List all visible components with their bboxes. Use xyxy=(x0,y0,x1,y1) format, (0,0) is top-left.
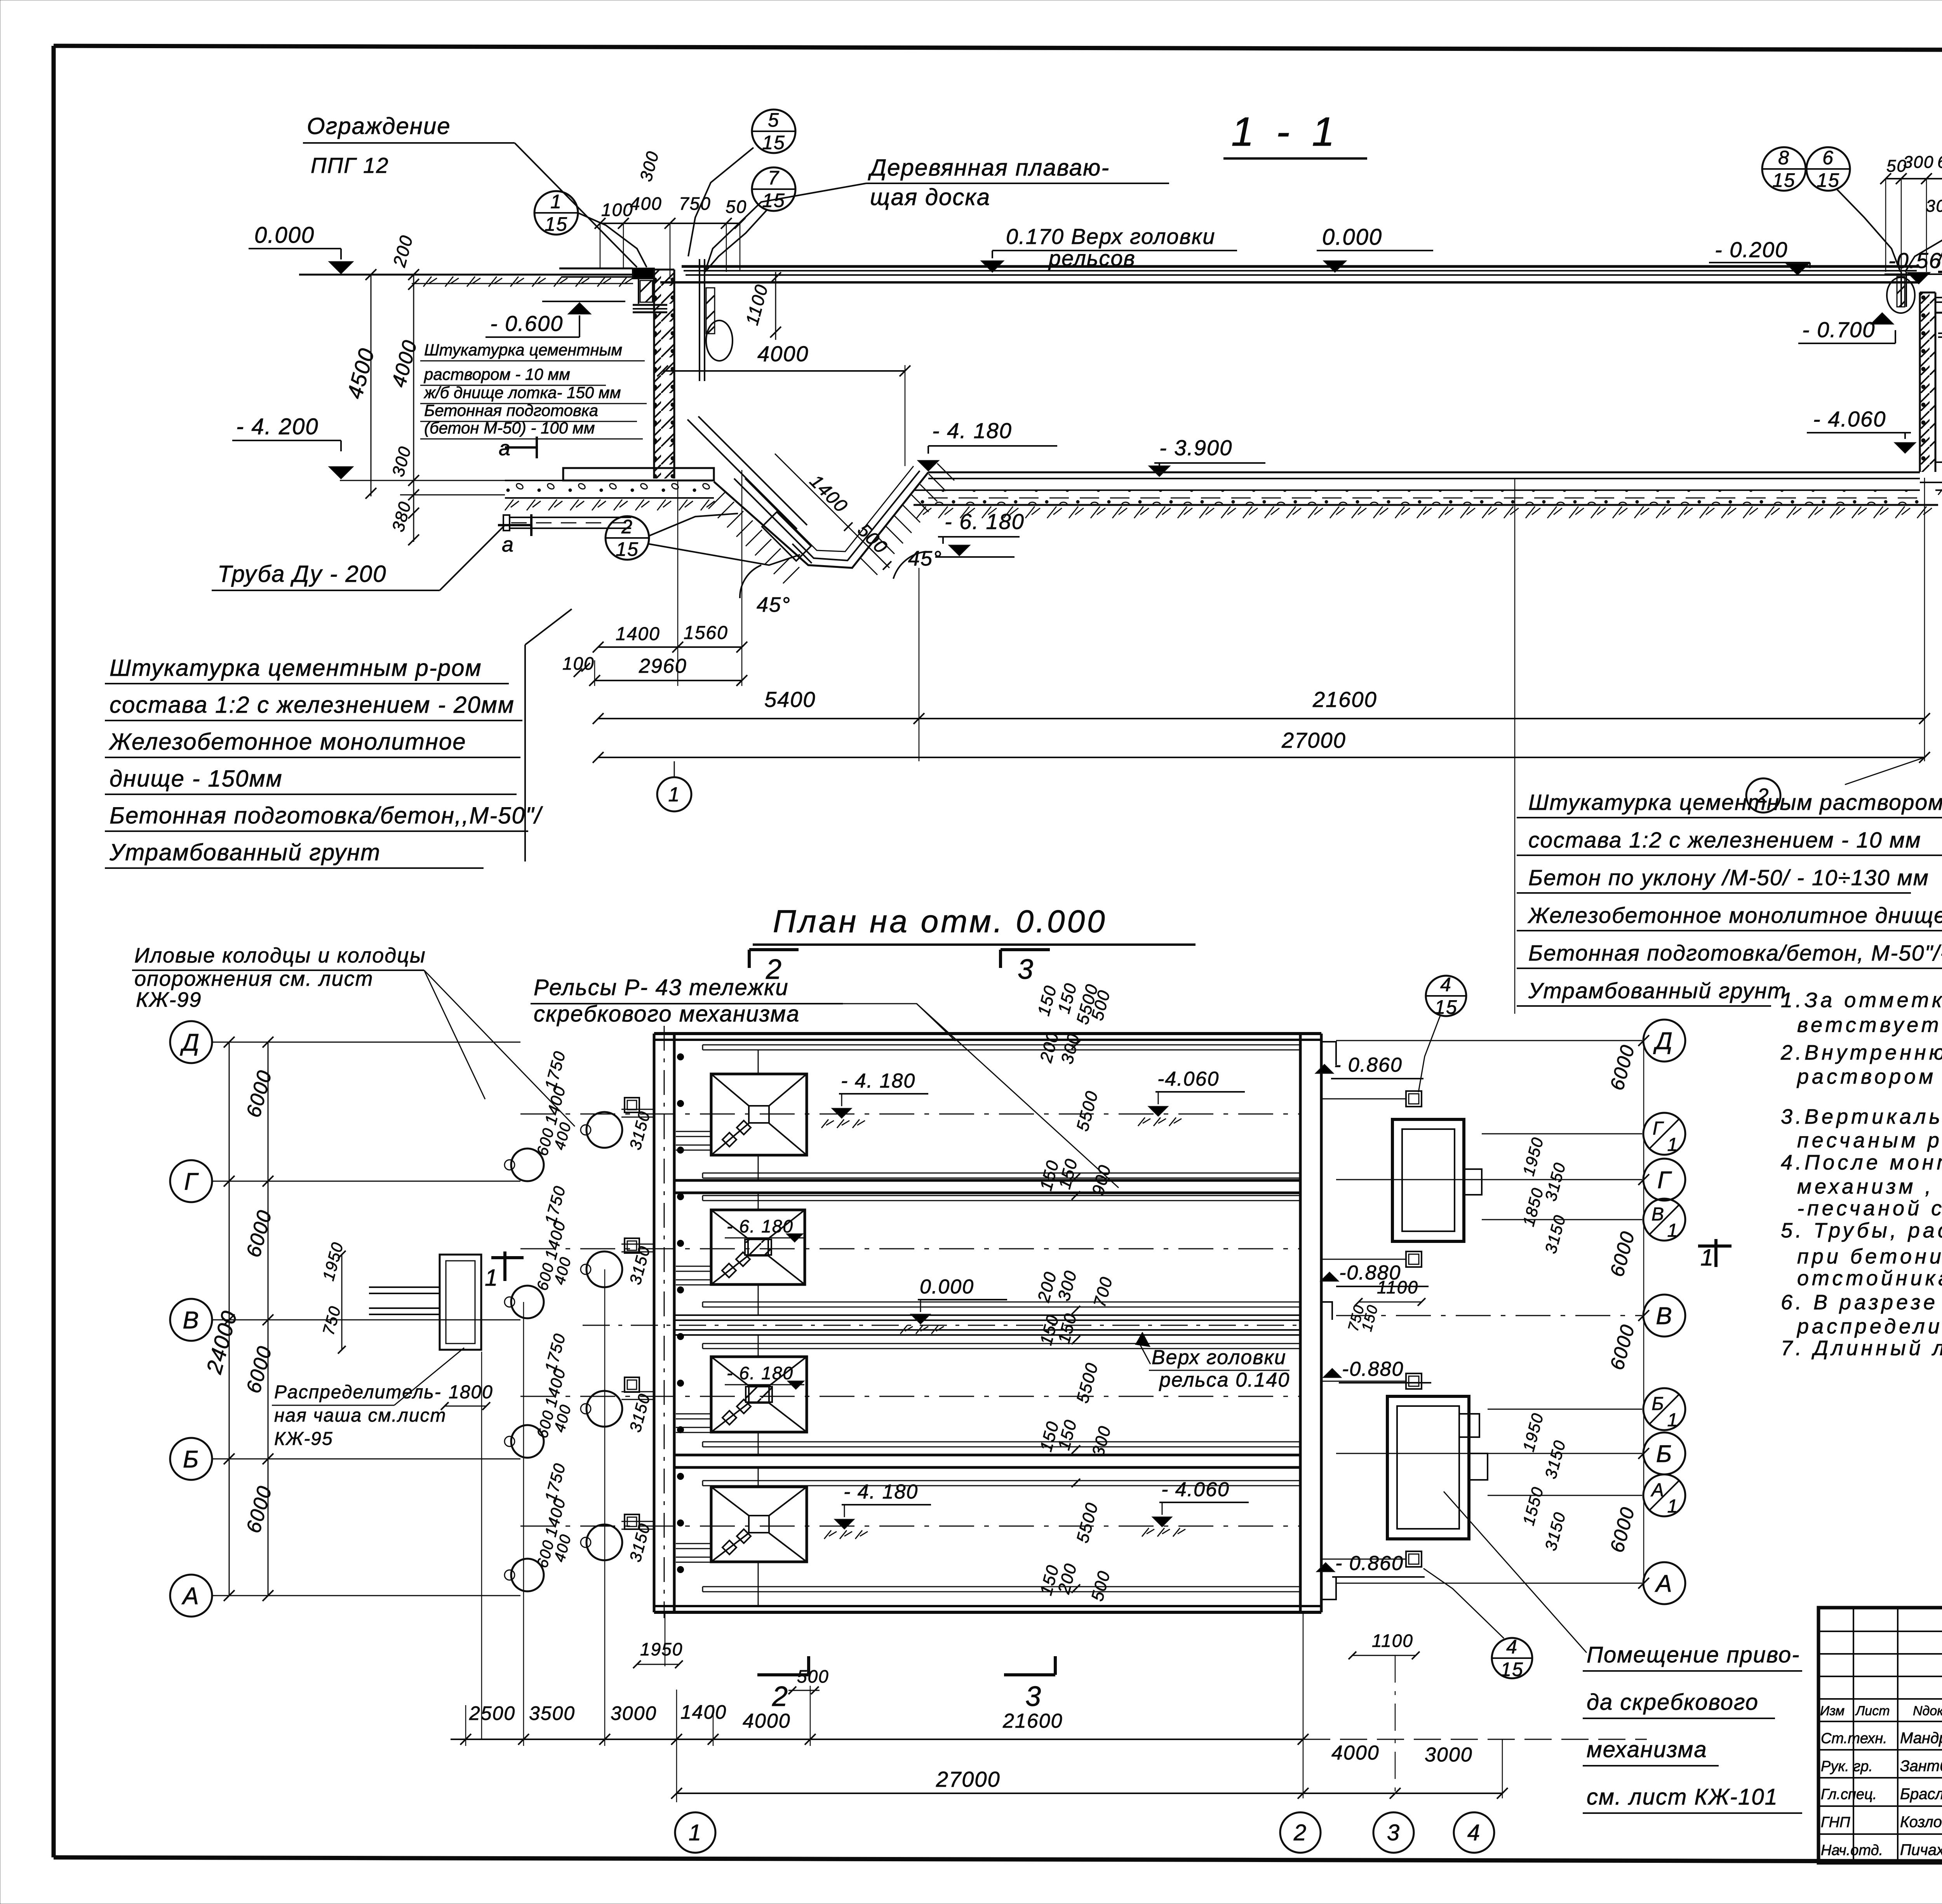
svg-text:см. лист КЖ-101: см. лист КЖ-101 xyxy=(1587,1784,1778,1810)
svg-text:скребкового механизма: скребкового механизма xyxy=(534,1001,800,1027)
svg-text:Мандрыка: Мандрыка xyxy=(1900,1730,1942,1747)
svg-text:-песчаной стяжки толщ: -песчаной стяжки толщиной 20 мм xyxy=(1797,1197,1942,1220)
svg-text:1400: 1400 xyxy=(616,624,660,644)
svg-text:Штукатурка цементным раст: Штукатурка цементным раствором xyxy=(1528,790,1942,815)
svg-text:1 - 1: 1 - 1 xyxy=(1231,109,1340,155)
svg-text:4000: 4000 xyxy=(757,341,809,366)
svg-text:3000: 3000 xyxy=(611,1702,657,1724)
svg-text:Труба Ду - 200: Труба Ду - 200 xyxy=(218,561,387,587)
svg-text:600: 600 xyxy=(1937,153,1942,172)
svg-text:Д: Д xyxy=(180,1029,200,1056)
svg-text:4000: 4000 xyxy=(743,1710,791,1732)
svg-text:Помещение приво-: Помещение приво- xyxy=(1587,1642,1800,1667)
svg-text:днище: днище - 150мм xyxy=(110,766,283,792)
svg-text:Деревянная плаваю-: Деревянная плаваю- xyxy=(868,155,1110,181)
svg-text:15: 15 xyxy=(1500,1659,1524,1680)
svg-text:15: 15 xyxy=(1434,996,1458,1018)
svg-text:раствором состава 1:2 тол: раствором состава 1:2 толщиной 20 мм с ж… xyxy=(1796,1065,1942,1088)
svg-text:300: 300 xyxy=(1903,153,1934,172)
svg-text:1.За отметку 0.000 принят: 1.За отметку 0.000 принят верх борта отс… xyxy=(1781,989,1942,1012)
svg-text:Ограждение: Ограждение xyxy=(307,113,451,139)
svg-text:0.000: 0.000 xyxy=(254,223,315,248)
svg-text:Пичахчи: Пичахчи xyxy=(1900,1841,1942,1859)
svg-text:Б: Б xyxy=(1651,1394,1664,1414)
svg-text:4.После монтажа и рихтов: 4.После монтажа и рихтовки рельс под скр… xyxy=(1781,1151,1942,1174)
svg-text:В: В xyxy=(183,1307,199,1334)
svg-text:-0.880: -0.880 xyxy=(1342,1358,1404,1380)
svg-text:Бетонная подготовка/бетон,,М-: Бетонная подготовка/бетон,,М-50"/ xyxy=(110,802,543,828)
svg-text:15: 15 xyxy=(1772,169,1796,191)
svg-text:Б: Б xyxy=(1656,1441,1672,1467)
svg-text:- 0.860: - 0.860 xyxy=(1335,1552,1404,1575)
svg-text:1: 1 xyxy=(1667,1220,1679,1241)
svg-text:А: А xyxy=(1650,1480,1665,1500)
svg-text:Д: Д xyxy=(1653,1028,1673,1055)
svg-text:План на отм. 0.000: План на отм. 0.000 xyxy=(773,904,1107,939)
svg-text:15: 15 xyxy=(616,538,639,560)
svg-text:3: 3 xyxy=(1387,1820,1400,1845)
svg-text:В: В xyxy=(1656,1303,1672,1330)
svg-text:100: 100 xyxy=(601,200,633,220)
svg-text:да скребкового: да скребкового xyxy=(1587,1690,1759,1715)
svg-text:15: 15 xyxy=(545,213,568,235)
svg-text:1800: 1800 xyxy=(449,1382,493,1403)
svg-text:ППГ 12: ППГ 12 xyxy=(311,153,389,178)
svg-text:750: 750 xyxy=(679,193,711,214)
svg-text:3000: 3000 xyxy=(1425,1744,1473,1766)
svg-text:Козловская: Козловская xyxy=(1900,1813,1942,1831)
svg-text:А: А xyxy=(1654,1570,1672,1597)
svg-text:Штукатурка цементным р-ром: Штукатурка цементным р-ром xyxy=(110,655,482,681)
svg-text:а: а xyxy=(499,437,511,460)
svg-text:27000: 27000 xyxy=(1281,728,1346,752)
svg-text:Штукатурка цементным: Штукатурка цементным xyxy=(424,341,622,359)
svg-text:21600: 21600 xyxy=(1002,1710,1063,1732)
svg-text:Г: Г xyxy=(184,1168,199,1195)
svg-text:механизм , по мостикам: механизм , по мостикам выполняется пол и… xyxy=(1797,1175,1942,1198)
svg-text:Бетон по уклону /М-50/ -: Бетон по уклону /М-50/ - 10÷130 мм xyxy=(1528,865,1929,890)
svg-text:3: 3 xyxy=(1018,954,1034,985)
svg-text:3500: 3500 xyxy=(529,1702,575,1724)
svg-text:3.Вертикальные поверхности: 3.Вертикальные поверхности лотков затира… xyxy=(1781,1105,1942,1128)
svg-text:1: 1 xyxy=(1667,1135,1679,1155)
svg-text:15: 15 xyxy=(1817,169,1840,191)
svg-text:0.170 Верх головки: 0.170 Верх головки xyxy=(1006,224,1215,249)
svg-text:Изм: Изм xyxy=(1820,1704,1845,1718)
svg-text:Утрамбованный грунт: Утрамбованный грунт xyxy=(109,839,381,865)
svg-text:- 0.200: - 0.200 xyxy=(1715,237,1788,262)
svg-text:Гл.спец.: Гл.спец. xyxy=(1821,1786,1877,1803)
svg-text:1: 1 xyxy=(1667,1496,1679,1517)
svg-text:5400: 5400 xyxy=(764,687,816,712)
svg-text:рельсов: рельсов xyxy=(1048,246,1136,270)
svg-text:(бетон М-50) - 100 мм: (бетон М-50) - 100 мм xyxy=(424,419,595,437)
svg-text:1: 1 xyxy=(485,1265,498,1291)
svg-text:- 0.700: - 0.700 xyxy=(1802,317,1875,342)
svg-text:- 3.900: - 3.900 xyxy=(1159,435,1232,460)
svg-text:400: 400 xyxy=(630,193,662,214)
svg-text:В: В xyxy=(1651,1204,1665,1225)
svg-text:2500: 2500 xyxy=(469,1702,515,1724)
svg-text:1: 1 xyxy=(689,1820,702,1845)
svg-text:ветствует абсолютной отметк: ветствует абсолютной отметке xyxy=(1797,1013,1942,1037)
svg-text:распределительная чаша: распределительная чаша xyxy=(1796,1315,1942,1338)
svg-text:состава 1:2 с железнением - 20: состава 1:2 с железнением - 20мм xyxy=(110,692,515,718)
svg-text:1: 1 xyxy=(1700,1244,1714,1270)
svg-text:КЖ-99: КЖ-99 xyxy=(136,988,202,1011)
svg-text:Ст.техн.: Ст.техн. xyxy=(1821,1730,1887,1747)
svg-text:5. Трубы, расположенные под: 5. Трубы, расположенные под днищем отсто… xyxy=(1781,1219,1942,1242)
svg-text:- 4. 180: - 4. 180 xyxy=(844,1481,918,1503)
svg-text:КЖ-95: КЖ-95 xyxy=(274,1429,333,1449)
svg-text:27000: 27000 xyxy=(936,1767,1001,1791)
svg-text:песчаным раствором .: песчаным раствором . xyxy=(1797,1129,1942,1152)
svg-text:1100: 1100 xyxy=(1372,1631,1413,1651)
svg-text:- 4.060: - 4.060 xyxy=(1161,1478,1230,1501)
svg-text:2: 2 xyxy=(621,516,633,538)
svg-text:Nдокумента: Nдокумента xyxy=(1913,1704,1942,1718)
svg-text:2960: 2960 xyxy=(639,655,687,677)
svg-text:раствором - 10 мм: раствором - 10 мм xyxy=(423,365,570,383)
svg-text:7: 7 xyxy=(768,167,780,189)
svg-text:1400: 1400 xyxy=(680,1701,727,1723)
svg-text:щая доска: щая доска xyxy=(870,184,990,210)
svg-text:3: 3 xyxy=(1025,1681,1042,1712)
svg-text:Распределитель-: Распределитель- xyxy=(274,1382,442,1403)
svg-text:Иловые колодцы и колодцы: Иловые колодцы и колодцы xyxy=(134,944,426,967)
svg-text:21600: 21600 xyxy=(1312,687,1377,712)
svg-text:Б: Б xyxy=(183,1446,199,1473)
svg-text:5: 5 xyxy=(768,109,780,131)
svg-text:опорожнения см. лист: опорожнения см. лист xyxy=(134,967,374,990)
svg-text:- 0.600: - 0.600 xyxy=(490,311,563,336)
svg-text:механизма: механизма xyxy=(1587,1737,1707,1762)
svg-text:1: 1 xyxy=(550,191,562,212)
svg-text:1: 1 xyxy=(1667,1410,1679,1431)
svg-text:2: 2 xyxy=(772,1681,788,1712)
svg-text:6: 6 xyxy=(1822,147,1834,169)
svg-text:- 4. 180: - 4. 180 xyxy=(932,418,1012,443)
svg-text:0.000: 0.000 xyxy=(920,1276,974,1298)
svg-text:2.Внутреннюю к воде поверхно: 2.Внутреннюю к воде поверхность стен ошт… xyxy=(1780,1041,1942,1064)
svg-text:- 0.860: - 0.860 xyxy=(1334,1054,1403,1076)
svg-text:1: 1 xyxy=(668,783,680,806)
svg-text:Зантберг: Зантберг xyxy=(1900,1758,1942,1775)
svg-text:Рук. гр.: Рук. гр. xyxy=(1821,1758,1873,1775)
svg-text:2: 2 xyxy=(1293,1820,1307,1845)
svg-text:1100: 1100 xyxy=(1377,1277,1418,1297)
svg-text:отстойника .: отстойника . xyxy=(1797,1267,1942,1290)
svg-text:8: 8 xyxy=(1778,147,1790,169)
svg-text:7. Длинный лист комплект: 7. Длинный лист комплектен с листами КЖ-… xyxy=(1781,1337,1942,1360)
svg-text:- 6. 180: - 6. 180 xyxy=(727,1216,794,1236)
svg-text:1560: 1560 xyxy=(684,623,728,643)
svg-text:0.000: 0.000 xyxy=(1322,225,1382,250)
svg-text:6. В разрезе 1-1 условно: 6. В разрезе 1-1 условно не показаны кол… xyxy=(1781,1291,1942,1314)
svg-text:Железобетонное монолитное: Железобетонное монолитное xyxy=(108,729,466,755)
svg-text:ная чаша см.лист: ная чаша см.лист xyxy=(274,1405,447,1426)
svg-text:300: 300 xyxy=(1926,197,1942,216)
svg-text:45°: 45° xyxy=(757,593,791,616)
svg-text:1950: 1950 xyxy=(640,1639,683,1659)
svg-text:Бетонная подготовка/бетон, М-: Бетонная подготовка/бетон, М-50"/-100мм xyxy=(1528,941,1942,966)
svg-text:Нач.отд.: Нач.отд. xyxy=(1821,1842,1883,1859)
svg-text:4: 4 xyxy=(1467,1820,1481,1845)
svg-text:рельса 0.140: рельса 0.140 xyxy=(1159,1369,1290,1391)
svg-text:Г: Г xyxy=(1653,1118,1664,1139)
svg-text:А: А xyxy=(181,1583,199,1610)
svg-text:4000: 4000 xyxy=(1331,1742,1380,1764)
svg-text:ж/б днище лотка- 150 мм: ж/б днище лотка- 150 мм xyxy=(423,383,621,402)
svg-text:- 6. 180: - 6. 180 xyxy=(727,1363,794,1383)
svg-text:Лист: Лист xyxy=(1855,1704,1890,1718)
svg-text:-0.560: -0.560 xyxy=(1888,248,1942,273)
svg-text:а: а xyxy=(502,533,514,556)
svg-text:Брасловский: Брасловский xyxy=(1900,1786,1942,1803)
svg-text:- 4. 180: - 4. 180 xyxy=(841,1070,915,1092)
svg-text:15: 15 xyxy=(762,132,785,153)
svg-text:Железобетонное монолитное дн: Железобетонное монолитное днище-150мм xyxy=(1527,903,1942,928)
svg-text:4: 4 xyxy=(1440,974,1452,996)
svg-text:50: 50 xyxy=(726,197,747,217)
svg-text:- 4. 200: - 4. 200 xyxy=(236,414,319,439)
svg-text:45°: 45° xyxy=(908,547,942,570)
svg-text:при бетонировании днища: при бетонировании днища и устройстве под… xyxy=(1797,1245,1942,1268)
svg-text:Г: Г xyxy=(1657,1167,1672,1194)
svg-text:Верх головки: Верх головки xyxy=(1152,1346,1286,1369)
svg-text:Бетонная подготовка: Бетонная подготовка xyxy=(424,401,598,419)
svg-text:4: 4 xyxy=(1506,1636,1518,1658)
svg-text:- 4.060: - 4.060 xyxy=(1813,407,1886,431)
svg-text:ГНП: ГНП xyxy=(1821,1814,1850,1831)
svg-text:состава 1:2 с железнением: состава 1:2 с железнением - 10 мм xyxy=(1528,828,1921,853)
svg-text:Рельсы Р- 43 тележки: Рельсы Р- 43 тележки xyxy=(534,975,789,1000)
svg-text:-4.060: -4.060 xyxy=(1157,1068,1219,1090)
svg-text:Утрамбованный грунт: Утрамбованный грунт xyxy=(1528,978,1787,1003)
